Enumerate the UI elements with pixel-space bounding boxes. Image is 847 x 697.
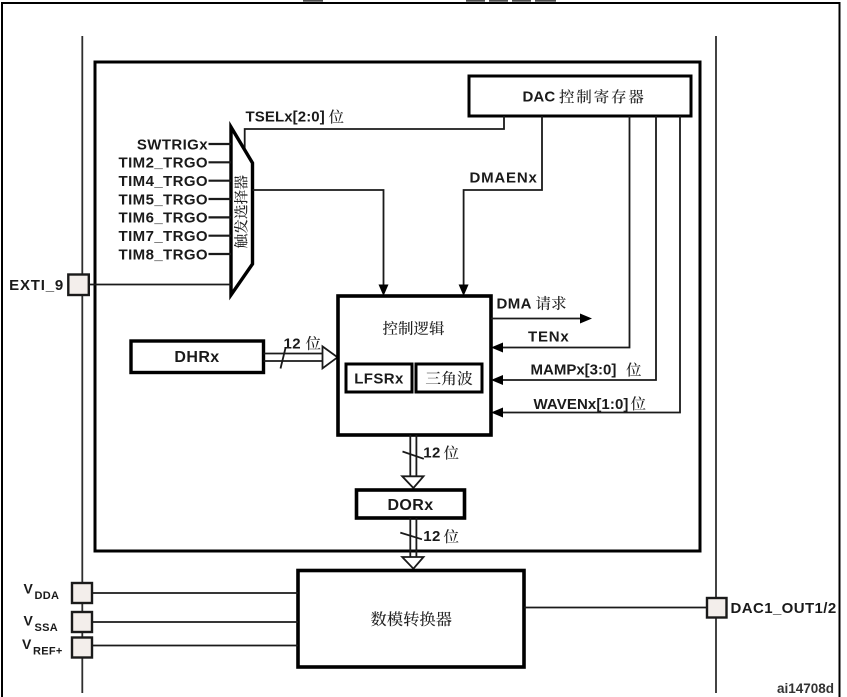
wire EXTI_9 to mux: [89, 284, 231, 286]
pin DAC1_OUT1/2: [707, 598, 727, 618]
LFSRx box: [346, 364, 412, 392]
svg-text:DHRx: DHRx: [174, 349, 219, 366]
svg-text:SWTRIGx: SWTRIGx: [137, 136, 208, 153]
bus control logic to DORx (12-bit): [402, 435, 424, 488]
svg-text:MAMPx[3:0]: MAMPx[3:0]: [531, 362, 617, 379]
bus DORx to DAC converter (12-bit): [400, 518, 423, 569]
svg-text:DORx: DORx: [387, 497, 433, 514]
svg-text:12: 12: [284, 335, 302, 352]
label 三角波: [426, 371, 473, 386]
svg-text:V: V: [24, 613, 34, 629]
label 触发选择器 (vertical): [234, 175, 248, 248]
svg-text:DMA: DMA: [497, 295, 532, 312]
open arrowhead down: [402, 476, 423, 488]
inner diagram frame: [95, 62, 700, 551]
arrowhead mux-output down: [379, 285, 389, 297]
wire VDDA to converter: [92, 592, 298, 594]
wire DMAEN: reg bottom down-left to control logic top: [464, 116, 542, 288]
svg-text:WAVENx[1:0]: WAVENx[1:0]: [534, 396, 629, 413]
open arrowhead right: [323, 346, 338, 368]
svg-text:TIM5_TRGO: TIM5_TRGO: [119, 191, 208, 208]
svg-text:LFSRx: LFSRx: [354, 370, 404, 387]
svg-text:DDA: DDA: [35, 590, 60, 602]
svg-text:V: V: [22, 636, 32, 652]
bus slash: [281, 348, 286, 369]
wire VSSA to converter: [92, 621, 298, 623]
label 位 (MAMP): [626, 362, 641, 376]
bus slash: [403, 452, 424, 459]
DAC control register box U-reg: [469, 76, 691, 116]
label 位 (12-bit converter bus): [444, 529, 459, 543]
label 请求: [536, 296, 566, 310]
arrowhead DMAEN down: [459, 285, 469, 297]
label 数模转换器: [371, 611, 452, 626]
wire TSEL select: reg bottom to mux top: [245, 116, 504, 154]
svg-text:TIM4_TRGO: TIM4_TRGO: [119, 173, 208, 190]
DORx register box: [357, 490, 465, 518]
svg-text:TENx: TENx: [528, 328, 570, 345]
left pin rail: [81, 36, 83, 693]
label 控制寄存器: [559, 89, 643, 104]
mux input labels: [119, 136, 209, 263]
triangle-wave box 三角波: [416, 364, 482, 392]
svg-text:DAC1_OUT1/2: DAC1_OUT1/2: [731, 600, 837, 617]
mux input stubs: [209, 144, 232, 254]
wire DMA request out: [491, 318, 584, 320]
svg-text:12: 12: [423, 528, 441, 545]
open arrowhead down: [402, 557, 423, 569]
wire TENx from reg down into control logic: [499, 116, 630, 348]
label 位 (TSEL): [329, 109, 344, 123]
label 位 (12-bit DHR bus): [306, 336, 321, 350]
right pin rail: [715, 36, 717, 693]
svg-text:TIM2_TRGO: TIM2_TRGO: [119, 155, 208, 172]
arrowhead MAMPx left: [491, 375, 503, 385]
arrowhead TENx left: [491, 343, 503, 353]
svg-text:12: 12: [423, 444, 441, 461]
trigger selector mux: [231, 127, 253, 295]
clipped figure title bottom: [303, 0, 556, 2]
bus DHRx to control logic (12-bit): [264, 346, 338, 368]
wire VREF+ to converter: [92, 645, 298, 647]
svg-text:V: V: [24, 581, 34, 597]
label 控制逻辑: [383, 321, 444, 335]
arrowhead DMA right: [580, 314, 592, 324]
svg-text:EXTI_9: EXTI_9: [9, 277, 64, 294]
control logic box: [338, 296, 491, 435]
wire mux output to control logic top: [253, 190, 384, 288]
svg-text:DAC: DAC: [523, 89, 556, 106]
wire WAVENx from reg down into control logic: [499, 116, 680, 413]
pin EXTI_9: [68, 275, 89, 296]
svg-text:TIM6_TRGO: TIM6_TRGO: [119, 210, 208, 227]
svg-text:DMAENx: DMAENx: [470, 169, 538, 186]
svg-text:TSELx[2:0]: TSELx[2:0]: [246, 109, 325, 126]
label 位 (12-bit DOR bus): [444, 445, 459, 459]
pin VDDA: [72, 583, 92, 603]
svg-text:REF+: REF+: [33, 646, 63, 658]
DAC converter box 数模转换器: [298, 571, 524, 668]
arrowhead WAVENx left: [491, 408, 503, 418]
wire MAMPx from reg down into control logic: [499, 116, 656, 380]
svg-text:TIM7_TRGO: TIM7_TRGO: [119, 228, 208, 245]
svg-text:ai14708d: ai14708d: [777, 681, 834, 696]
label 位 (WAVEN): [631, 396, 646, 410]
DHRx register box: [131, 341, 264, 373]
wire converter to DAC1_OUT: [524, 607, 707, 609]
pin VREF+: [72, 638, 92, 658]
svg-text:TIM8_TRGO: TIM8_TRGO: [119, 246, 208, 263]
bus slash: [400, 533, 422, 540]
pin VSSA: [72, 612, 92, 632]
svg-text:SSA: SSA: [35, 622, 59, 634]
